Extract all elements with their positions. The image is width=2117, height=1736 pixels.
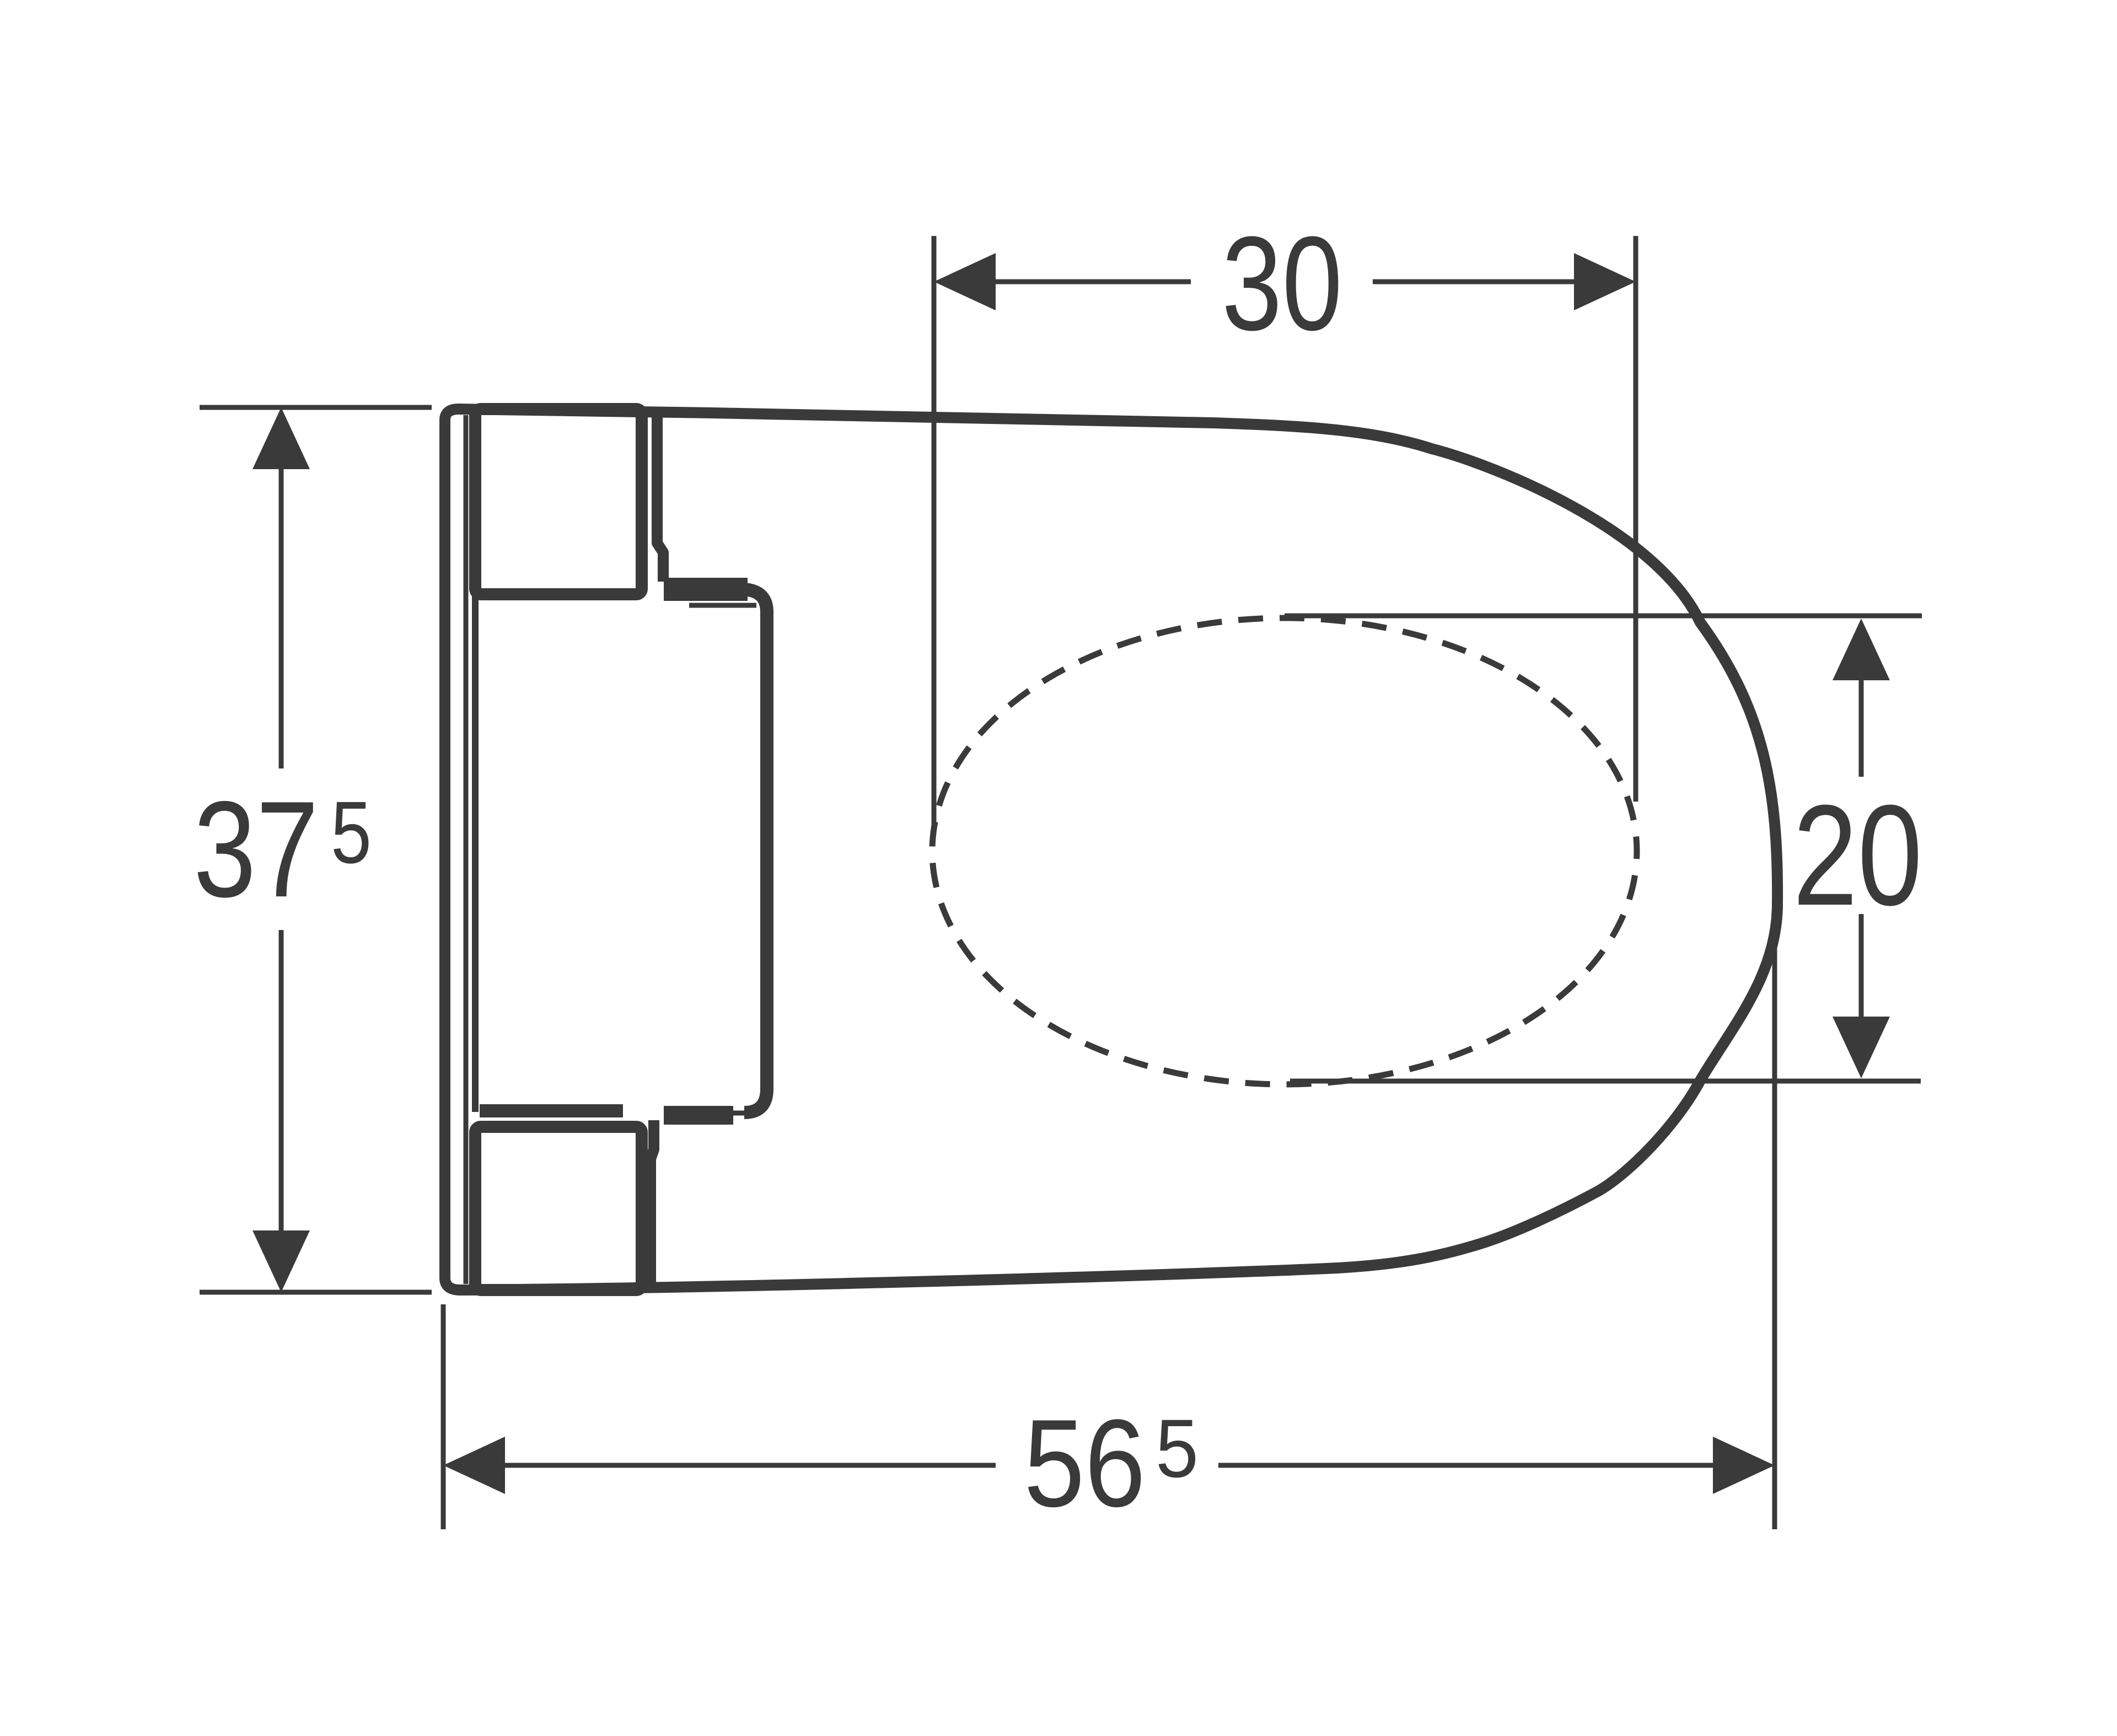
dim 56.5: dimension line right segment [1218, 1463, 1713, 1468]
dim 20: bottom arrowhead [1833, 1017, 1890, 1078]
dim 37.5: top arrowhead [252, 407, 310, 469]
dim 30: dimension line left segment [992, 280, 1191, 284]
dim 20: dimension line top segment [1859, 677, 1864, 777]
svg-text:20: 20 [1793, 776, 1922, 936]
inner thin line near wall edge [464, 415, 469, 1284]
dim 30: dimension line right segment [1373, 280, 1577, 284]
hinge bar bottom [664, 1106, 733, 1125]
hinge box top [475, 409, 642, 594]
cover right edge [744, 589, 767, 1112]
dim 56.5: left arrowhead [443, 1437, 505, 1494]
dim 20: bottom extension line [1290, 1079, 1921, 1084]
cover bottom edge thin [678, 1111, 750, 1116]
dim 20: top arrowhead [1833, 619, 1890, 680]
dim 20: top extension line [1285, 614, 1922, 619]
dim 20: dimension line bottom segment [1859, 914, 1864, 1020]
dim 37.5: dimension line top segment [279, 469, 284, 768]
cover bottom edge thick [480, 1104, 623, 1117]
dim 56.5: right extension line [1772, 933, 1777, 1529]
inner left edge line (boxes / cover) [472, 594, 479, 1112]
hinge pin line top [657, 409, 663, 582]
dim 37.5: bottom extension line [200, 1290, 432, 1295]
hinge box bottom [475, 1127, 642, 1290]
toilet outer outline (top view, D-shape) [445, 409, 1777, 1290]
dim 37.5: top extension line [200, 405, 432, 410]
hinge bar top [664, 578, 748, 601]
svg-text:5: 5 [1156, 1402, 1199, 1495]
dim 56.5: right arrowhead [1713, 1437, 1775, 1494]
dim 56.5: dimension line left segment [505, 1463, 996, 1468]
svg-text:56: 56 [1024, 1393, 1146, 1533]
dim 30: left extension line [932, 236, 937, 829]
cover top edge thin [689, 603, 756, 608]
dim 30: right arrowhead [1574, 253, 1636, 310]
dim 37.5: bottom arrowhead [252, 1230, 310, 1292]
dim 37.5: dimension line bottom segment [279, 930, 284, 1230]
dim 30: right extension line [1634, 236, 1638, 802]
svg-text:5: 5 [331, 783, 372, 882]
dim 56.5: left extension line [441, 1304, 446, 1529]
bowl opening dashed ellipse [932, 618, 1637, 1084]
hinge pin line bottom [651, 1120, 654, 1290]
svg-text:30: 30 [1222, 209, 1342, 358]
svg-text:37: 37 [194, 772, 319, 926]
dim 30: left arrowhead [934, 253, 996, 310]
